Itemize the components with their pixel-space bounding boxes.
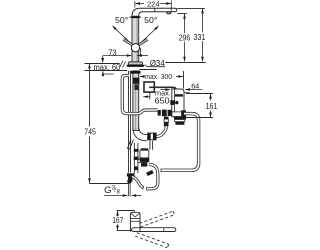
svg-text:G: G [104,185,111,196]
wire tee hose [132,176,143,187]
wire dim max300 left arrow [140,76,144,78]
node mounting stud [133,78,139,84]
wire deck bottom left [85,70,128,72]
wire spout outline [132,8,177,16]
wire dim max60 bottom arrow [102,71,104,76]
svg-text:331: 331 [194,33,206,42]
wire ext lever tip [140,48,142,56]
wire dim max60 top arrow [102,56,104,59]
wire dim G38 arrows [104,195,127,197]
wire deck top left [85,63,120,65]
wire swivel range dashed upper [135,211,174,248]
node lever cap [129,16,142,18]
wire dim 331 line [202,9,204,33]
svg-text:745: 745 [84,127,96,137]
wire spout division [154,8,156,11]
node valve mid stack [133,143,135,173]
wire dim 73 right arrow [137,55,148,57]
wire bottom ext line [89,183,129,185]
svg-text:Ø34: Ø34 [150,58,165,68]
wire leader arrow cable [160,89,170,91]
wire ext 167 bottom [117,230,132,232]
node junction dot valve [134,166,138,170]
wire ext 167 top [117,210,135,212]
wire faucet pipe body [132,16,139,62]
node top view spout division [163,228,165,232]
wire dim 64 [185,89,202,91]
wire swivel range dashed lower [137,233,169,245]
node spray hose coupler [147,133,156,141]
wire loop end cap [160,169,162,173]
wire leader arrow box top [179,92,189,94]
node top view faucet body [130,212,140,231]
wire deck break marks [120,61,123,67]
node lever position left [123,39,131,44]
node inline fitting A [158,110,161,116]
svg-text:224: 224 [147,0,160,8]
wire deck bottom right [139,69,156,71]
svg-text:167: 167 [112,215,123,225]
wire hose coupler to box [157,126,167,137]
node valve right stack [149,141,151,150]
wire dim max300 right arrow [176,76,183,78]
wire cable drop [149,92,151,99]
svg-text:8: 8 [117,190,121,196]
wire ext max300 [183,71,185,89]
wire deck top right [165,62,205,64]
svg-text:73: 73 [108,49,117,58]
node lever position right [139,39,147,44]
wire ext 161 bottom [186,117,213,119]
wire dim 73 line [103,55,132,57]
wire leader arrow socket [143,96,150,98]
wire shank tube [133,71,139,130]
svg-text:50°: 50° [144,16,157,25]
wire ext 161 top [186,93,213,95]
wire J hose [147,164,158,188]
node base dome [128,62,142,65]
wire dim 167 line [117,211,119,216]
wire ext 224 left [134,1,136,7]
node power socket box [144,82,154,92]
wire dim 161 line [210,94,212,101]
wire lever angle leader left [112,26,131,44]
wire hose crossing [130,140,134,150]
wire ext 224 right [170,0,172,11]
node J hose connector [146,170,154,176]
svg-text:max. 300: max. 300 [144,74,172,81]
node spray inlet fitting below box [164,117,169,120]
wire ext aerator [177,13,187,15]
wire power cable [149,87,176,93]
op control box U1 [172,89,184,117]
wire dim 224 line right [160,3,171,5]
wire left hose loop [122,76,157,114]
wire dim 745 line [89,64,91,70]
svg-text:161: 161 [206,102,218,111]
wire dim 296 line [184,14,186,33]
node base flange [126,65,144,67]
node inline fitting B [168,110,173,116]
svg-text:64: 64 [191,81,200,90]
node supply tee [127,173,135,176]
label 161 [205,102,218,110]
node aerator outlet [167,12,171,14]
wire spray hose bend [133,128,147,141]
wire lever angle leader right [139,26,158,44]
node junction dot G38 [127,179,132,184]
node lever ball joint [131,44,139,52]
wire outlet hose big loop [161,114,199,171]
svg-text:650: 650 [155,97,171,106]
svg-text:296: 296 [179,34,191,43]
node top view spout bar [132,228,176,232]
svg-text:50°: 50° [115,16,128,25]
wire dia34 leader [145,65,166,67]
wire supply pipe left [128,71,130,173]
node mounting nut [130,71,141,74]
wire dim 224 line left [135,3,144,5]
wire ext spout top [177,7,205,9]
wire G38 pipe [128,183,130,196]
